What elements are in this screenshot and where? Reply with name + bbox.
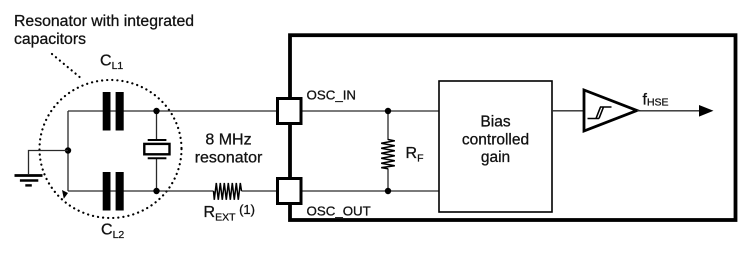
chip boundary [290,35,736,220]
schmitt trigger buffer U2 [584,90,637,131]
svg-text:OSC_OUT: OSC_OUT [307,203,371,218]
svg-text:capacitors: capacitors [14,31,86,48]
pin OSC_IN [278,99,302,124]
node junction RF bottom [385,188,391,194]
dotted leader line from label to ellipse [52,54,82,79]
svg-text:CL2: CL2 [101,222,124,242]
wire bias box to schmitt buffer [552,110,584,112]
ground symbol [15,176,43,186]
svg-text:OSC_IN: OSC_IN [307,88,357,103]
svg-text:gain: gain [481,149,510,166]
crystal branch wires [156,111,158,140]
svg-text:RF: RF [406,145,424,165]
wire left vertical of resonator loop [67,111,69,191]
crystal resonator X1 [144,140,169,158]
svg-text:Resonator with integrated: Resonator with integrated [14,13,194,30]
svg-text:REXT (1): REXT (1) [204,202,255,224]
node junction ground [65,147,71,153]
output wire fHSE [637,110,704,112]
resistor REXT zigzag [214,183,242,200]
node junction CL2/crystal [153,188,159,194]
wire OSC_OUT row left of Rext [68,190,214,192]
capacitor CL1 [103,92,124,131]
ground wire [29,151,69,175]
output arrowhead [699,105,714,117]
svg-text:fHSE: fHSE [643,92,669,109]
svg-text:8 MHz: 8 MHz [205,132,251,149]
capacitor CL2 [103,172,124,211]
svg-text:controlled: controlled [462,131,529,148]
svg-text:Bias: Bias [480,114,510,131]
pin OSC_OUT [278,179,302,204]
leader arrowhead [62,190,68,199]
svg-text:CL1: CL1 [100,53,123,73]
dotted ellipse around resonator [40,80,182,218]
svg-text:resonator: resonator [195,150,263,167]
resistor RF zigzag [381,140,395,169]
hysteresis symbol [588,107,612,119]
bias controlled gain box U1 [439,81,552,212]
resistor RF vertical wires [387,111,389,140]
wire OSC_IN row [68,110,439,112]
wire OSC_OUT row right of Rext [242,190,440,192]
node junction CL1/crystal [153,108,159,114]
node junction RF top [385,108,391,114]
